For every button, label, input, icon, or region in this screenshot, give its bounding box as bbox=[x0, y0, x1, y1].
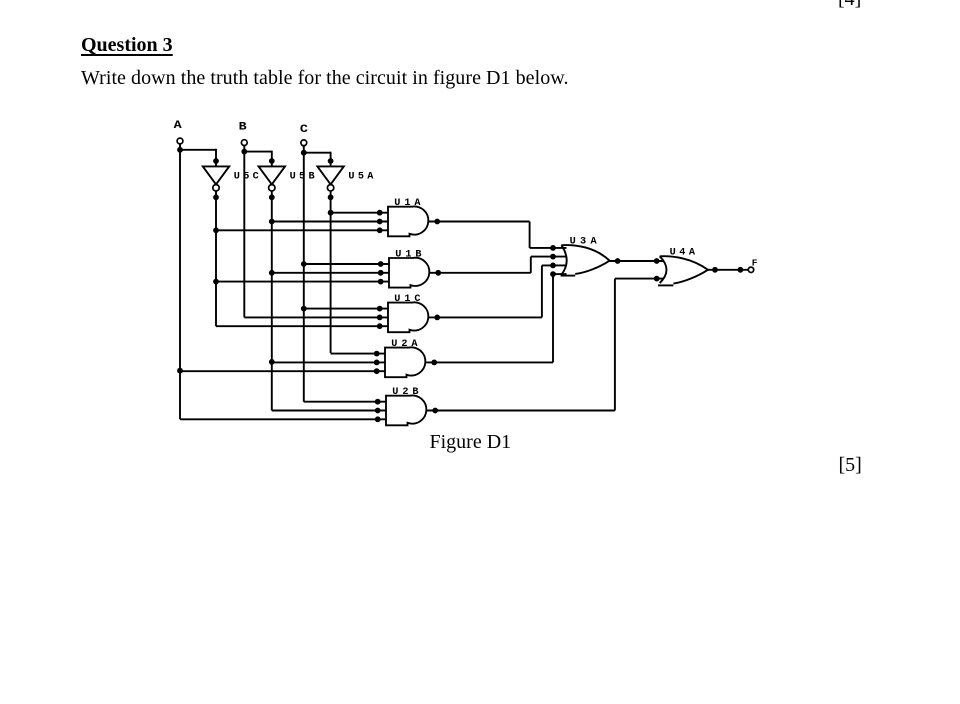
wire U1C input pin 3 bbox=[216, 325, 388, 327]
wire U1B output net bbox=[430, 257, 567, 273]
junction dot U5B out (Bbar) y=221.5 bbox=[269, 219, 275, 225]
wire U2A input pin 3 bbox=[180, 370, 385, 372]
wire U1B input pin 3 bbox=[216, 281, 389, 283]
wire B bus vertical bbox=[243, 146, 245, 318]
junction dot U5B out (Bbar) y=361.9 bbox=[269, 359, 275, 365]
svg-text:C: C bbox=[300, 124, 309, 136]
junction dot U4A output bbox=[712, 267, 718, 273]
caption Figure D1 bbox=[430, 431, 512, 454]
output terminal F bbox=[748, 258, 757, 273]
wire U1C output net bbox=[429, 265, 567, 317]
junction dot U1A input 1 bbox=[377, 210, 383, 216]
wire U1B input pin 2 bbox=[272, 272, 389, 274]
junction dot B branch bbox=[241, 149, 247, 155]
junction dot U1B input 1 bbox=[378, 261, 384, 267]
junction dot U3A output bbox=[615, 258, 621, 264]
inverter U5B bbox=[259, 166, 315, 191]
svg-text:U3A: U3A bbox=[570, 236, 598, 247]
junction dot U5C out (Abar) y=230.3 bbox=[213, 227, 219, 233]
OR gate U4A bbox=[658, 248, 708, 286]
junction dot U1C input 2 bbox=[377, 315, 383, 321]
wire U3A output to U4A input 1 bbox=[610, 260, 664, 262]
wire U2B input pin 3 bbox=[180, 418, 386, 420]
junction dot C bus y=308.6 bbox=[301, 306, 307, 312]
junction dot U1A input 3 bbox=[377, 227, 383, 233]
junction dot U5A out (Cbar) y=212.7 bbox=[328, 210, 334, 216]
junction dot U1B net at OR input bbox=[550, 254, 556, 260]
wire A to inverter U5C bbox=[179, 149, 216, 167]
wire U1A input pin 3 bbox=[216, 229, 388, 231]
wire U2B input pin 2 bbox=[272, 410, 386, 412]
svg-text:U2B: U2B bbox=[392, 387, 418, 398]
wire U2B input pin 1 bbox=[304, 401, 386, 403]
inverter U5C bbox=[203, 166, 259, 191]
wire U2A input pin 1 bbox=[331, 353, 385, 355]
junction dot U2A input 2 bbox=[374, 360, 380, 366]
junction dot U5B output pin bbox=[269, 194, 275, 200]
wire U1A output net bbox=[429, 222, 567, 248]
input terminal C bbox=[300, 124, 309, 146]
junction dot U2B input 2 bbox=[375, 408, 381, 414]
junction dot U2A input 3 bbox=[374, 368, 380, 374]
wire U2A input pin 2 bbox=[272, 361, 385, 363]
junction dot U5A output pin bbox=[328, 194, 334, 200]
junction dot A bus y=370.7 bbox=[177, 368, 183, 374]
junction dot U5C output pin bbox=[213, 194, 219, 200]
svg-text:A: A bbox=[174, 120, 183, 132]
junction dot U1A input 2 bbox=[377, 219, 383, 225]
junction dot U2B input 3 bbox=[375, 416, 381, 422]
junction dot U5B out (Bbar) y=272.8 bbox=[269, 270, 275, 276]
inverter U5A bbox=[317, 166, 374, 191]
wire U4A output to terminal F bbox=[708, 269, 748, 271]
junction dot U4A input 1 bbox=[654, 258, 660, 264]
page mark [4] top right (clipped) bbox=[838, 0, 861, 11]
junction dot U1B output bbox=[435, 270, 441, 276]
svg-text:U1C: U1C bbox=[394, 294, 420, 305]
wire B to inverter U5B bbox=[243, 151, 271, 167]
wire U1C input pin 2 bbox=[244, 316, 388, 318]
junction dot U1C input 1 bbox=[377, 306, 383, 312]
junction dot U2A input 1 bbox=[374, 351, 380, 357]
input terminal A bbox=[174, 120, 183, 144]
junction dot U2A net at OR input bbox=[550, 271, 556, 277]
wire U1C input pin 1 bbox=[304, 308, 388, 310]
svg-text:U1A: U1A bbox=[394, 198, 421, 209]
svg-text:U1B: U1B bbox=[395, 249, 421, 260]
junction dot U2A output bbox=[431, 360, 437, 366]
wire U1B input pin 1 bbox=[304, 263, 389, 265]
wire U1A input pin 1 bbox=[331, 212, 388, 214]
junction dot U5A input pin bbox=[328, 158, 334, 164]
junction dot U5C input pin bbox=[213, 158, 219, 164]
junction dot U1C input 3 bbox=[377, 323, 383, 329]
svg-text:U5B: U5B bbox=[290, 172, 315, 183]
wire C to inverter U5A bbox=[303, 152, 331, 167]
svg-text:U4A: U4A bbox=[670, 248, 696, 259]
junction dot U1B input 2 bbox=[378, 270, 384, 276]
OR gate U3A bbox=[561, 236, 610, 275]
AND gate U1C bbox=[388, 294, 428, 332]
wire C bus vertical bbox=[303, 146, 305, 402]
heading Question 3 bbox=[81, 34, 173, 57]
svg-text:F: F bbox=[752, 258, 758, 269]
wire A bus vertical bbox=[179, 144, 181, 419]
junction dot F pin bbox=[738, 267, 744, 273]
junction dot A branch bbox=[177, 147, 183, 153]
svg-text:U2A: U2A bbox=[391, 339, 418, 350]
page mark [5] bbox=[839, 454, 862, 477]
wire U2B output net bbox=[427, 279, 664, 411]
AND gate U2A bbox=[385, 339, 425, 377]
AND gate U1B bbox=[389, 249, 429, 287]
junction dot U1A output bbox=[434, 219, 440, 225]
junction dot C bus y=264 bbox=[301, 261, 307, 267]
wire U5A out (Cbar) vertical bbox=[330, 191, 332, 353]
wire U5B out (Bbar) vertical bbox=[271, 191, 273, 411]
svg-text:U5C: U5C bbox=[234, 172, 259, 183]
input terminal B bbox=[239, 122, 248, 146]
junction dot U2B net at OR input bbox=[654, 276, 660, 282]
svg-text:U5A: U5A bbox=[348, 172, 374, 183]
junction dot U5B input pin bbox=[269, 158, 275, 164]
junction dot U2B input 1 bbox=[375, 399, 381, 405]
junction dot U1A net at OR input bbox=[550, 245, 556, 251]
AND gate U1A bbox=[388, 198, 428, 236]
junction dot U1B input 3 bbox=[378, 279, 384, 285]
junction dot U1C output bbox=[434, 315, 440, 321]
body text bbox=[81, 67, 569, 90]
AND gate U2B bbox=[386, 387, 426, 425]
junction dot U1C net at OR input bbox=[550, 263, 556, 269]
wire U1A input pin 2 bbox=[272, 221, 388, 223]
junction dot U2B output bbox=[432, 408, 438, 414]
wire U2A output net bbox=[426, 274, 567, 362]
junction dot C branch bbox=[301, 150, 307, 156]
svg-text:B: B bbox=[239, 122, 248, 134]
junction dot U5C out (Abar) y=281.6 bbox=[213, 279, 219, 285]
wire U5C out (Abar) vertical bbox=[215, 191, 217, 326]
